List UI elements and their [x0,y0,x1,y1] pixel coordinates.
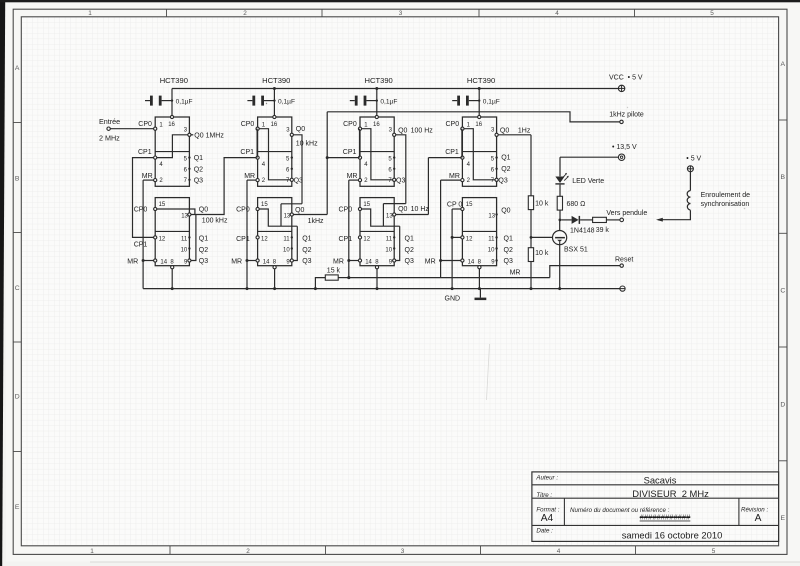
svg-text:CP0: CP0 [134,206,148,213]
svg-text:A: A [755,513,762,524]
svg-text:10 k: 10 k [535,250,549,257]
svg-text:10: 10 [283,248,290,254]
svg-text:11: 11 [283,236,290,242]
svg-text:16: 16 [271,122,278,128]
svg-text:HCT390: HCT390 [467,76,495,85]
svg-text:HCT390: HCT390 [262,76,290,85]
svg-text:3: 3 [399,10,403,17]
svg-text:Q0: Q0 [296,126,305,133]
svg-text:3: 3 [401,548,405,555]
svg-text:MR: MR [244,173,255,180]
svg-text:4: 4 [557,548,561,555]
svg-text:14: 14 [468,259,475,265]
svg-text:0,1µF: 0,1µF [380,98,397,105]
svg-text:11: 11 [386,236,393,242]
svg-text:13: 13 [284,213,291,219]
svg-text:Q1: Q1 [194,155,203,162]
svg-text:Entrée: Entrée [99,117,120,126]
svg-text:Q3: Q3 [194,178,203,185]
svg-text:Q1: Q1 [504,236,513,243]
svg-text:GND: GND [445,296,461,303]
svg-text:E: E [781,515,786,522]
svg-text:0,1µF: 0,1µF [278,98,295,105]
svg-text:Q2: Q2 [501,166,510,173]
svg-text:CP1: CP1 [138,149,152,156]
svg-text:• 5 V: • 5 V [686,155,701,162]
svg-text:synchronisation: synchronisation [701,201,750,208]
svg-text:CP0: CP0 [236,206,250,213]
svg-text:samedi 16 octobre 2010: samedi 16 octobre 2010 [622,529,723,540]
svg-text:B: B [15,175,20,182]
svg-text:Q0: Q0 [398,206,407,213]
svg-text:Q2: Q2 [194,167,203,174]
svg-text:Enroulement de: Enroulement de [701,192,751,199]
svg-text:CP0: CP0 [138,121,152,128]
svg-text:HCT390: HCT390 [365,76,393,85]
svg-text:12: 12 [363,236,370,242]
svg-text:10: 10 [385,248,392,254]
svg-text:BSX 51: BSX 51 [564,246,588,253]
svg-text:C: C [15,285,20,292]
svg-text:2: 2 [243,10,247,17]
svg-text:Titre :: Titre : [536,492,552,499]
svg-text:14: 14 [160,259,167,265]
svg-text:Q0: Q0 [500,127,509,134]
svg-text:1kHz pilote: 1kHz pilote [609,111,644,118]
svg-text:680 Ω: 680 Ω [567,201,586,208]
svg-text:Q1: Q1 [302,236,311,243]
svg-text:C: C [780,287,785,294]
svg-text:MR: MR [127,259,138,266]
svg-text:• 13,5 V: • 13,5 V [612,144,637,151]
svg-text:B: B [781,174,786,181]
svg-text:15 k: 15 k [327,267,341,274]
svg-text:CP0: CP0 [339,206,353,213]
svg-text:Q3: Q3 [302,258,311,265]
svg-text:LED Verte: LED Verte [572,178,604,185]
svg-text:16: 16 [373,122,380,128]
svg-text:Q1: Q1 [405,236,414,243]
svg-text:VCC • 5 V: VCC • 5 V [609,75,643,82]
svg-text:13: 13 [181,213,188,219]
svg-text:1kHz: 1kHz [308,218,324,225]
svg-text:Q3: Q3 [396,177,405,184]
svg-text:10: 10 [181,248,188,254]
svg-text:Q1: Q1 [199,236,208,243]
svg-text:10 kHz: 10 kHz [296,140,318,147]
svg-text:15: 15 [159,202,166,208]
svg-text:D: D [780,401,785,408]
svg-text:Q2: Q2 [199,247,208,254]
svg-text:D: D [15,393,20,400]
svg-text:Q3: Q3 [498,177,507,184]
svg-text:############: ############ [640,513,691,522]
svg-text:100 kHz: 100 kHz [202,218,228,225]
svg-text:Q0: Q0 [398,128,407,135]
svg-text:CP1: CP1 [236,236,250,243]
svg-text:Auteur :: Auteur : [535,475,558,482]
svg-text:Q2: Q2 [302,247,311,254]
svg-text:A: A [781,61,786,68]
svg-text:Q3: Q3 [504,258,513,265]
svg-text:Q1: Q1 [501,155,510,162]
svg-text:CP1: CP1 [339,236,353,243]
svg-text:MR: MR [425,259,436,266]
svg-text:1: 1 [90,548,94,555]
svg-text:11: 11 [181,236,188,242]
svg-text:Reset: Reset [615,256,633,263]
svg-text:Q3: Q3 [199,258,208,265]
svg-text:2 MHz: 2 MHz [99,133,120,142]
svg-text:CP0: CP0 [241,121,255,128]
svg-text:CP1: CP1 [445,149,459,156]
svg-text:12: 12 [261,236,268,242]
svg-text:1Hz: 1Hz [518,127,531,134]
svg-text:12: 12 [466,236,473,242]
svg-text:11: 11 [488,236,495,242]
svg-text:MR: MR [449,173,460,180]
svg-text:A: A [15,65,20,72]
svg-text:0,1µF: 0,1µF [483,98,500,105]
svg-text:16: 16 [475,122,482,128]
svg-text:100 Hz: 100 Hz [411,128,434,135]
svg-text:5: 5 [710,10,714,17]
svg-text:CP0: CP0 [446,121,460,128]
svg-text:CP1: CP1 [134,241,148,248]
svg-text:4: 4 [555,10,559,17]
svg-text:HCT390: HCT390 [160,76,188,85]
svg-text:10 Hz: 10 Hz [411,206,430,213]
svg-text:12: 12 [159,236,166,242]
svg-text:13: 13 [386,213,393,219]
svg-text:Vers pendule: Vers pendule [606,210,647,217]
svg-text:CP1: CP1 [240,149,254,156]
svg-text:Q0 1MHz: Q0 1MHz [194,132,224,139]
svg-text:Sacavis: Sacavis [644,474,677,485]
svg-text:MR: MR [231,259,242,266]
svg-text:10 k: 10 k [535,201,549,208]
svg-text:MR: MR [142,173,153,180]
svg-text:Q2: Q2 [405,247,414,254]
svg-text:14: 14 [365,259,372,265]
svg-text:Q0: Q0 [501,207,510,214]
svg-text:15: 15 [466,202,473,208]
svg-text:MR: MR [333,259,344,266]
svg-text:Q0: Q0 [295,207,304,214]
svg-text:1: 1 [88,10,92,17]
svg-text:5: 5 [712,548,716,555]
svg-text:14: 14 [263,259,270,265]
svg-text:CP 0: CP 0 [447,201,463,208]
svg-text:10: 10 [488,248,495,254]
svg-text:39 k: 39 k [596,227,610,234]
svg-text:Q0: Q0 [199,207,208,214]
svg-text:2: 2 [246,548,250,555]
svg-text:15: 15 [261,202,268,208]
svg-text:DIVISEUR 2 MHz: DIVISEUR 2 MHz [632,488,709,499]
svg-text:CP1: CP1 [343,149,357,156]
svg-text:A4: A4 [541,513,554,524]
svg-text:Q3: Q3 [405,258,414,265]
svg-text:Q2: Q2 [504,247,513,254]
svg-text:0,1µF: 0,1µF [176,98,193,105]
svg-text:13: 13 [488,213,495,219]
svg-text:MR: MR [510,270,521,277]
svg-text:CP0: CP0 [343,121,357,128]
svg-text:MR: MR [347,173,358,180]
svg-text:E: E [15,504,20,511]
svg-text:Date :: Date : [536,528,553,535]
svg-text:15: 15 [363,202,370,208]
svg-text:1N4148: 1N4148 [570,227,595,234]
svg-text:16: 16 [168,122,175,128]
